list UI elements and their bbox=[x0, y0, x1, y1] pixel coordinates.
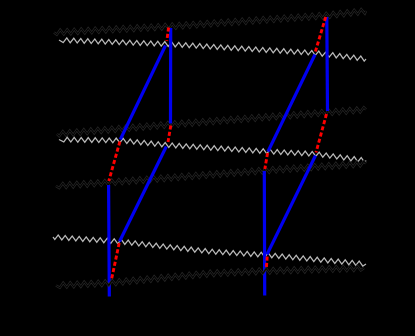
photon wavy line W4 (middle, light gray) bbox=[59, 137, 366, 162]
worldline L5 (right atom, vertical, T2 to M2) bbox=[325, 17, 329, 111]
photon wavy line W7 (lower-middle, dark) bbox=[56, 161, 366, 188]
worldline L1 (left atom, vertical, T to M) bbox=[169, 28, 172, 124]
red dashed segment R2 (M to M') bbox=[168, 126, 171, 143]
worldline L7 (right diagonal, M2' to B2) bbox=[267, 156, 316, 255]
red dashed segment R5 (T2 to T2') bbox=[315, 17, 325, 52]
red dashed segment R8 (B2 to B2') bbox=[266, 257, 267, 271]
worldline L2 (left diagonal, T' to A) bbox=[120, 46, 165, 140]
photon wavy line W6 (bottom, dark, drawn over worldlines) bbox=[56, 266, 364, 288]
worldline L3 (left diagonal, M' to B) bbox=[120, 147, 167, 242]
photon wavy line W1 (top, dark) bbox=[54, 9, 366, 35]
red dashed segment R6 (M2 to M2') bbox=[316, 114, 327, 153]
worldline L4 (left vertical, from A' down) bbox=[107, 185, 111, 297]
worldline L6 (right diagonal, T2' to M2A) bbox=[268, 55, 315, 152]
photon wavy line W2 (upper, light gray) bbox=[59, 38, 366, 61]
red dashed segment R3 (A to A') bbox=[109, 142, 120, 182]
red dashed segment R4 (B to B') bbox=[111, 243, 119, 281]
photon wavy line W5 (bottom, light gray) bbox=[53, 235, 366, 266]
photon wavy line W3 (middle, dark) bbox=[57, 107, 366, 136]
red dashed segment R7 (M2A to A2') bbox=[265, 153, 268, 169]
worldline L8 (right vertical, from A2' down) bbox=[263, 171, 267, 296]
red dashed segment R1 (T to T') bbox=[167, 28, 169, 42]
